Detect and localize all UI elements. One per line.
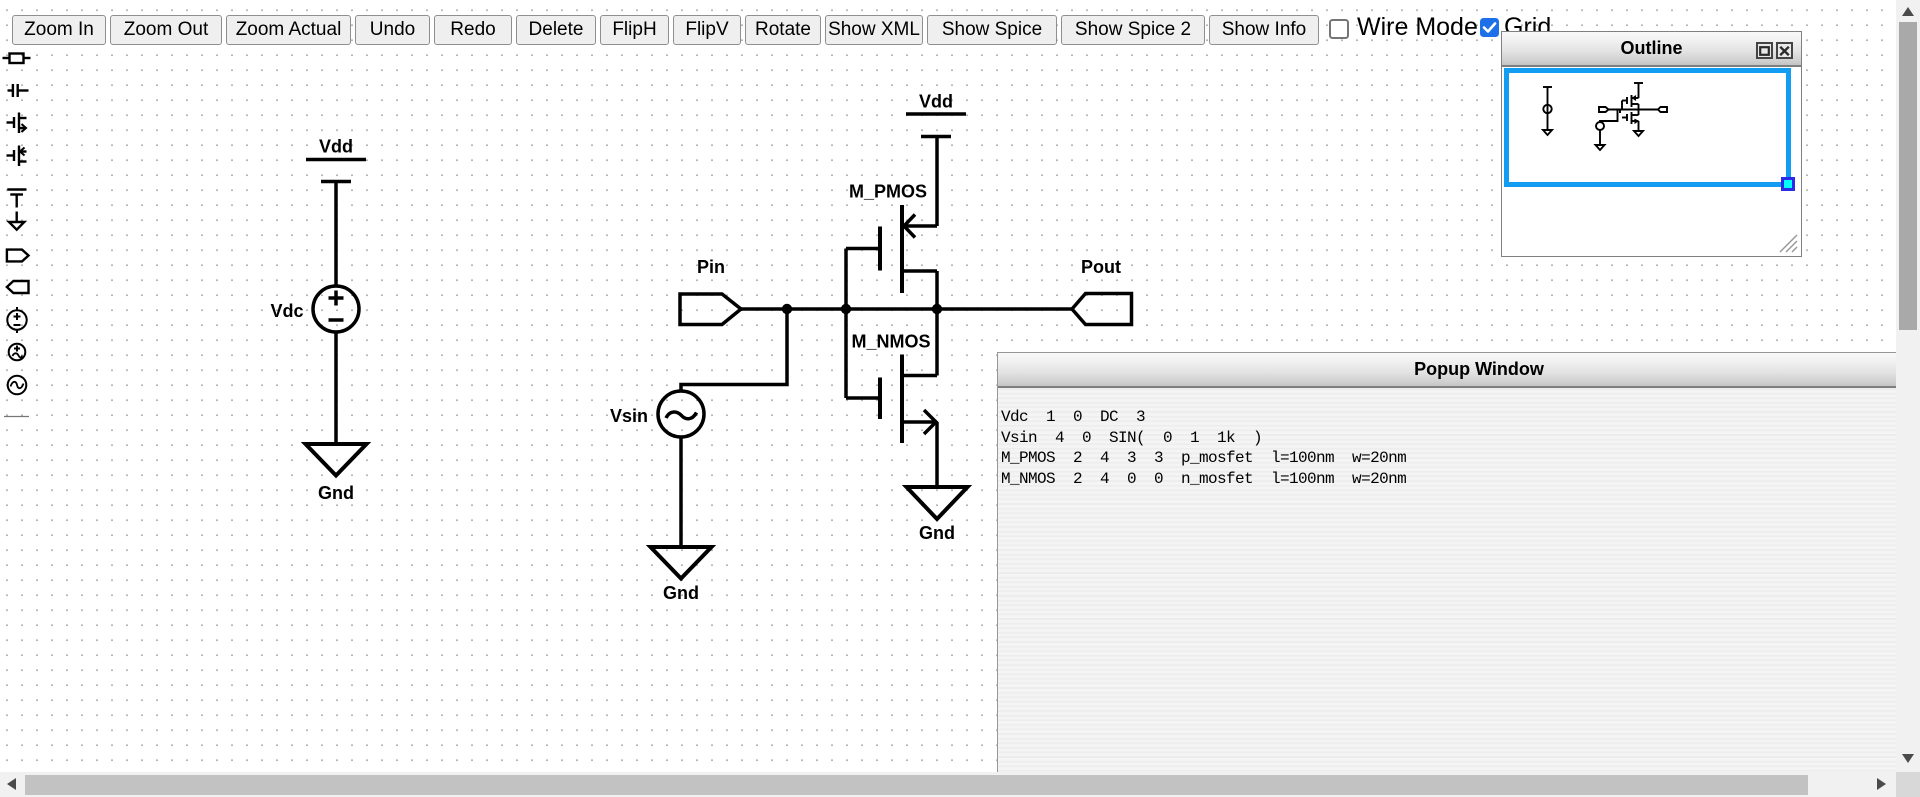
svg-text:Vdc: Vdc bbox=[270, 301, 303, 321]
svg-text:Pin: Pin bbox=[697, 257, 725, 277]
svg-text:M_NMOS: M_NMOS bbox=[851, 332, 930, 352]
svg-text:Pout: Pout bbox=[1081, 257, 1121, 277]
svg-text:Vdd: Vdd bbox=[919, 92, 953, 112]
svg-text:Vdd: Vdd bbox=[319, 137, 353, 157]
svg-text:Vsin: Vsin bbox=[610, 406, 648, 426]
svg-text:M_PMOS: M_PMOS bbox=[849, 182, 927, 202]
svg-text:Gnd: Gnd bbox=[663, 583, 699, 603]
svg-text:Gnd: Gnd bbox=[318, 483, 354, 503]
svg-text:Gnd: Gnd bbox=[919, 523, 955, 543]
